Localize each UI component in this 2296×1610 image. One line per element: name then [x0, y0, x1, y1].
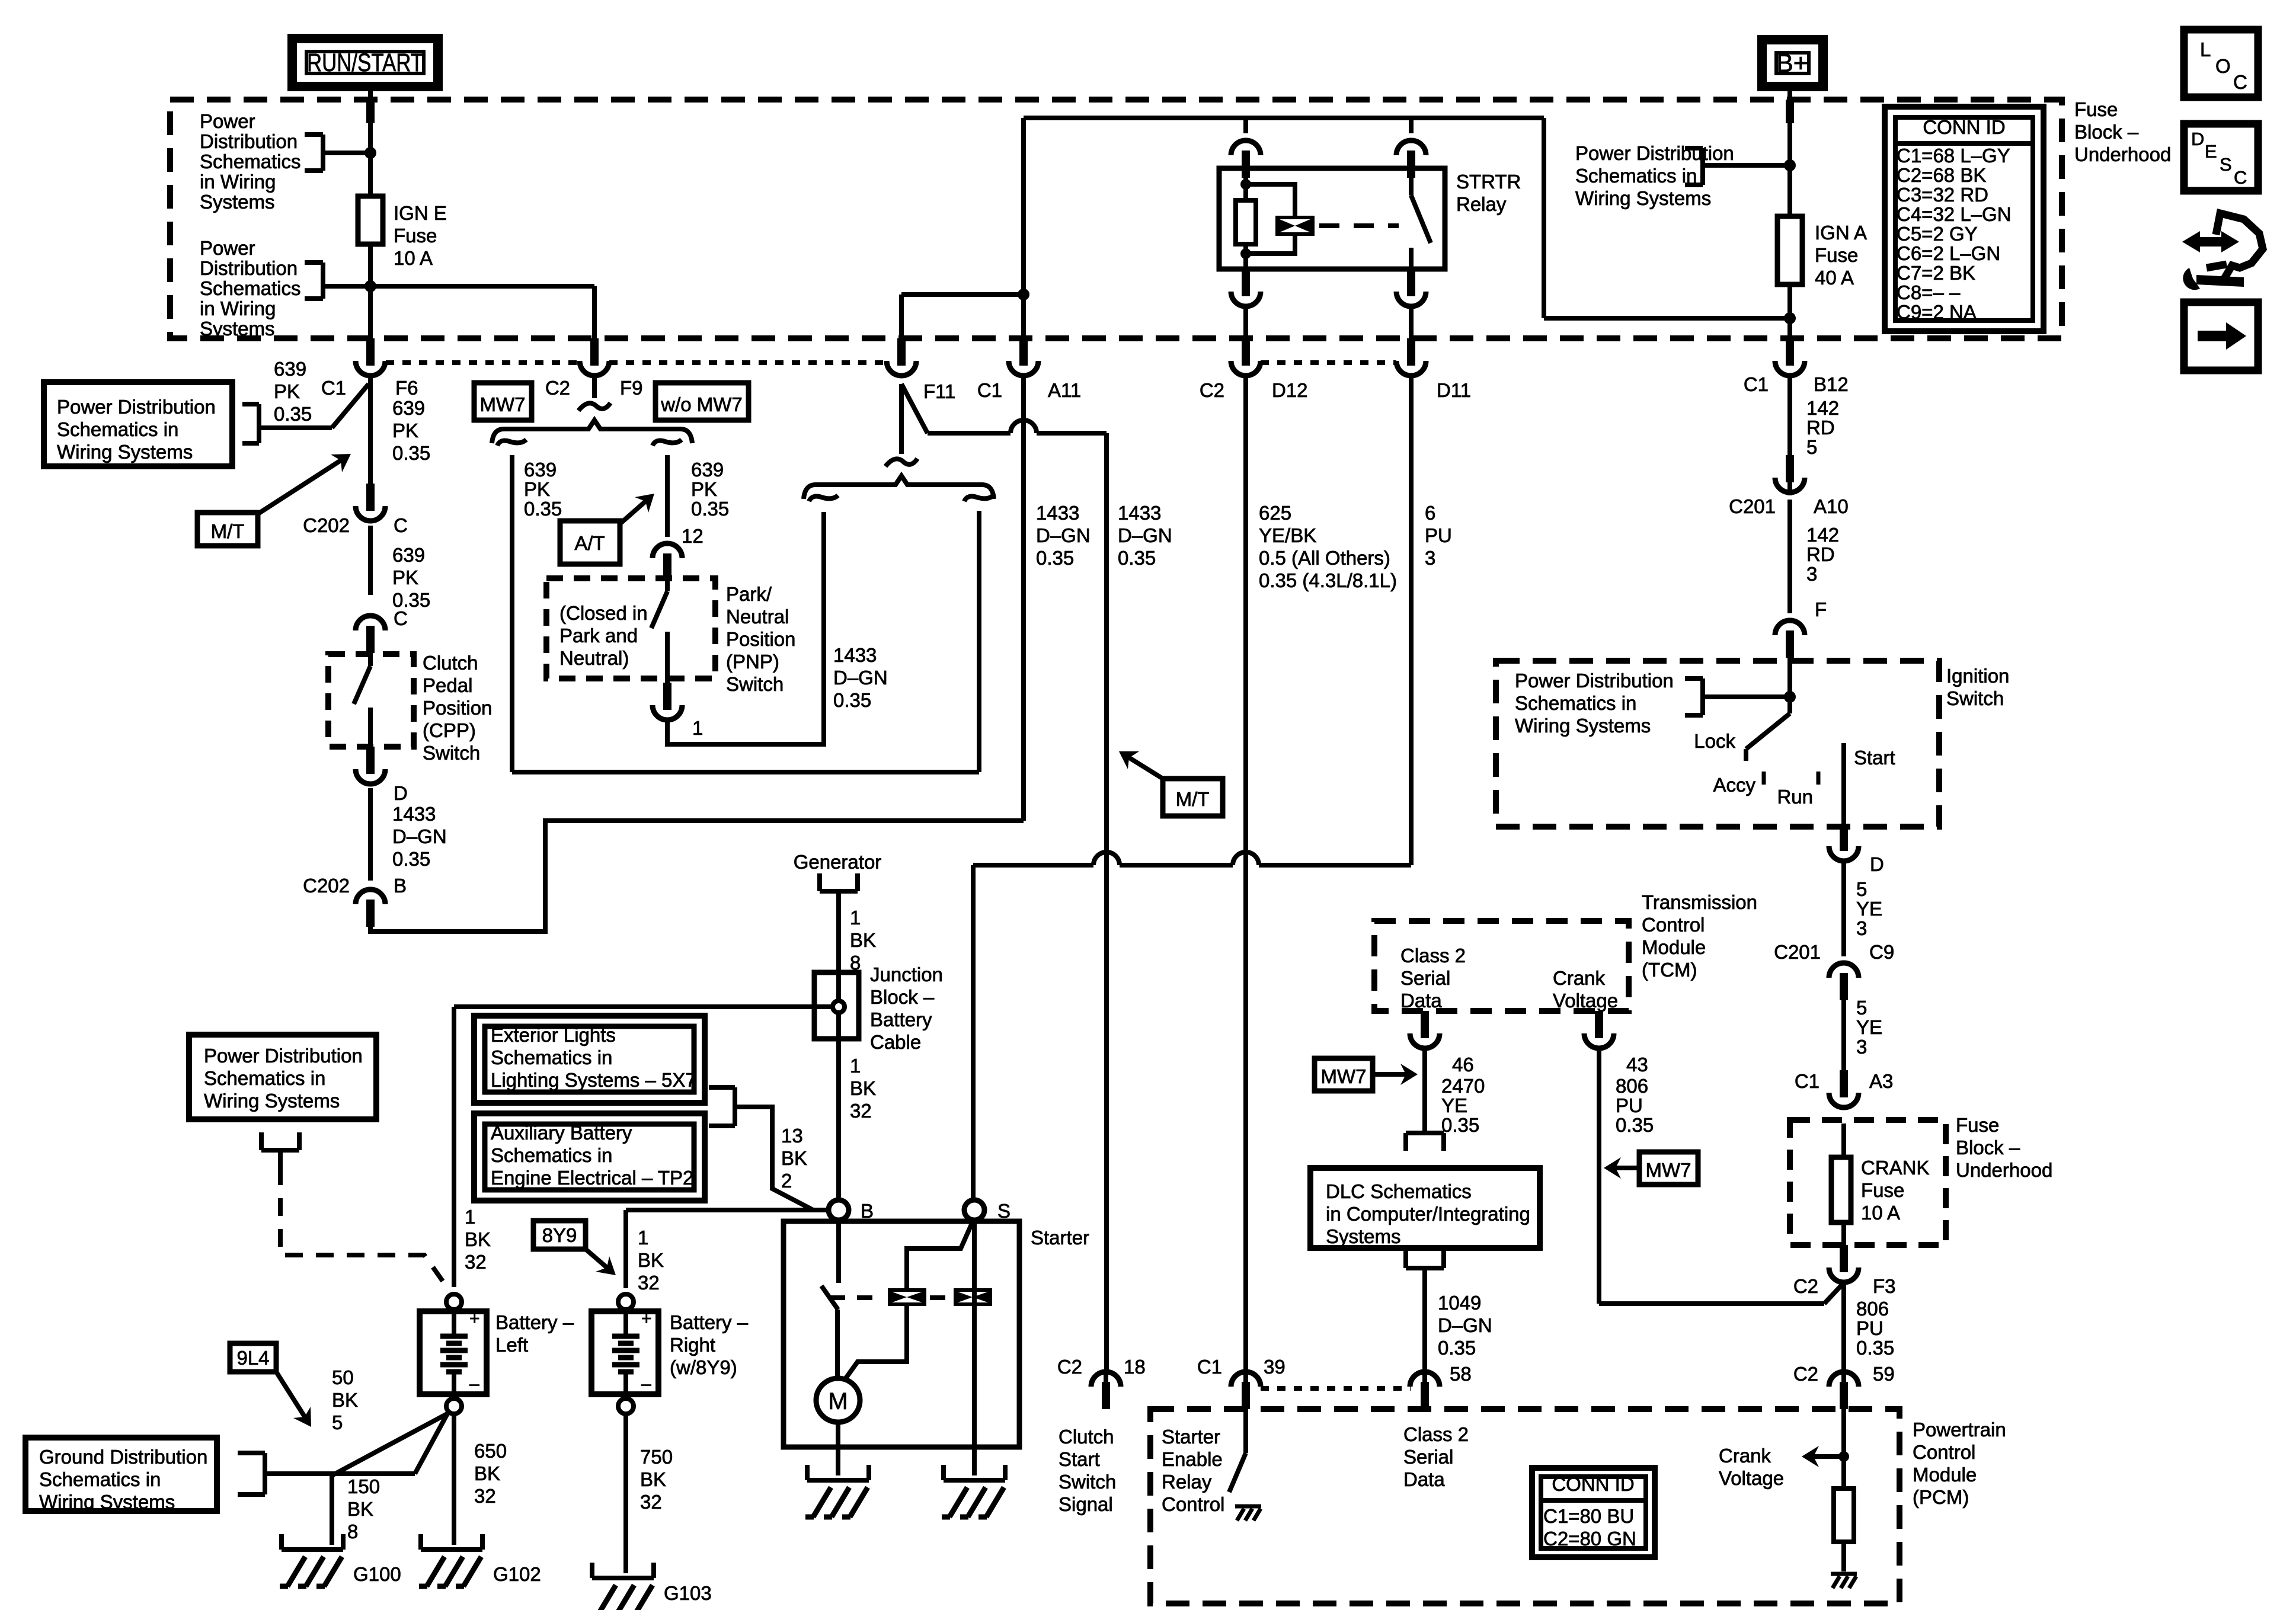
wire D12 into PCM: [1243, 1371, 1248, 1385]
wire starter S to ground: [972, 1447, 977, 1475]
node junction dot B+ upper: [1784, 159, 1796, 171]
svg-text:13: 13: [781, 1125, 803, 1147]
svg-text:(Closed in: (Closed in: [559, 602, 648, 624]
wire relay out to S: [971, 865, 976, 1199]
svg-text:–: –: [469, 1374, 479, 1394]
arrow crank voltage: [1808, 1454, 1844, 1459]
ground G100: [279, 1534, 284, 1550]
svg-text:C: C: [2233, 71, 2247, 93]
ground starter solenoid: [941, 1465, 946, 1480]
svg-text:0.5 (All Others): 0.5 (All Others): [1259, 547, 1390, 569]
svg-text:1049: 1049: [1438, 1292, 1481, 1314]
terminal S starter: [964, 1200, 984, 1220]
svg-text:40 A: 40 A: [1815, 267, 1854, 289]
svg-text:C1: C1: [1197, 1356, 1222, 1378]
svg-text:10 A: 10 A: [394, 247, 433, 269]
svg-text:G100: G100: [353, 1563, 401, 1585]
svg-text:Park and: Park and: [559, 625, 638, 646]
svg-text:Switch: Switch: [423, 742, 480, 764]
wire coil1 top jog: [907, 1222, 973, 1288]
connector C2/59: [1840, 1382, 1848, 1409]
node B+ fuse block entry stub: [1786, 100, 1794, 123]
svg-text:625: 625: [1259, 502, 1291, 524]
svg-text:C9=2 NA: C9=2 NA: [1897, 301, 1977, 323]
splice wave at F9: [578, 403, 610, 411]
wire relay actuation dashed: [1319, 223, 1399, 228]
svg-text:Systems: Systems: [1326, 1225, 1401, 1247]
svg-text:C9: C9: [1869, 941, 1894, 963]
svg-text:Crank: Crank: [1553, 967, 1606, 989]
arrow M/T right to wire: [1124, 754, 1163, 779]
svg-text:1: 1: [638, 1227, 648, 1249]
wire generator down: [836, 891, 841, 1199]
svg-text:Start: Start: [1854, 747, 1895, 769]
wire ground ref run: [265, 1471, 415, 1476]
wire S internal: [972, 1220, 977, 1447]
wire relay switch blade: [1411, 196, 1431, 243]
svg-text:BK: BK: [850, 1077, 876, 1099]
svg-text:DLC Schematics: DLC Schematics: [1326, 1180, 1472, 1202]
wire relay switch out: [1409, 306, 1414, 338]
bracket DLC bottom: [1406, 1266, 1444, 1270]
svg-text:PK: PK: [274, 380, 300, 402]
svg-text:3: 3: [1856, 1036, 1867, 1058]
svg-text:C2: C2: [545, 377, 570, 399]
svg-text:Schematics in: Schematics in: [204, 1067, 325, 1089]
connector C2/F3: [1840, 1245, 1848, 1272]
label MW7 tag box 4: [1639, 1152, 1698, 1185]
svg-text:Neutral): Neutral): [559, 647, 629, 669]
svg-text:C8=– –: C8=– –: [1897, 281, 1961, 303]
fuse IGN E: [358, 196, 383, 244]
svg-text:Schematics in: Schematics in: [39, 1468, 161, 1490]
svg-text:PK: PK: [691, 478, 717, 500]
ground PCM crank: [1831, 1572, 1857, 1576]
icon LOC box: [2184, 30, 2258, 97]
wire bracket left diagonal to C1/F6: [332, 384, 369, 428]
svg-text:Systems: Systems: [200, 191, 275, 213]
wire bracket right to B+ bus: [1703, 163, 1790, 168]
wire D12 column: [1243, 376, 1248, 1371]
node junction dot B+ bus lower: [1784, 312, 1796, 324]
svg-text:PU: PU: [1616, 1094, 1643, 1116]
hook F11 right branch: [964, 495, 993, 501]
wire relay switch stub top: [1409, 168, 1414, 196]
bracket ground distribution: [238, 1451, 265, 1455]
node relay coil dot bottom: [1240, 248, 1251, 259]
ground starter motor: [805, 1465, 810, 1480]
svg-text:Block –: Block –: [870, 986, 935, 1008]
relay STRTR box: [1219, 168, 1445, 269]
svg-text:Generator: Generator: [794, 851, 882, 873]
connector F11: [897, 338, 906, 366]
svg-text:Run: Run: [1777, 786, 1813, 808]
connector CPP input C: [366, 626, 375, 653]
svg-text:D11: D11: [1437, 379, 1471, 401]
wire relay coil pin riser: [1243, 118, 1248, 133]
svg-text:in Computer/Integrating: in Computer/Integrating: [1326, 1203, 1530, 1225]
wire A10 down: [1787, 500, 1792, 613]
svg-text:BK: BK: [781, 1147, 807, 1169]
svg-text:Powertrain: Powertrain: [1913, 1419, 2006, 1441]
wire run tick: [1817, 772, 1821, 785]
wire relay switch stub bottom: [1409, 248, 1414, 269]
terminal B starter: [829, 1200, 849, 1220]
svg-text:806: 806: [1856, 1298, 1889, 1320]
fork brace F9: [492, 420, 692, 443]
svg-text:D–GN: D–GN: [1438, 1314, 1492, 1336]
svg-text:Clutch: Clutch: [423, 652, 478, 674]
wire relay switch feed to B+ bus: [1544, 316, 1790, 321]
svg-text:Wiring Systems: Wiring Systems: [39, 1491, 175, 1513]
svg-text:D: D: [1870, 853, 1884, 875]
svg-text:3: 3: [1806, 563, 1817, 585]
bracket power distribution ign: [1685, 676, 1703, 681]
svg-text:39: 39: [1264, 1356, 1285, 1378]
ground relay control: [1235, 1505, 1261, 1509]
bracket generator: [820, 889, 858, 894]
svg-text:Signal: Signal: [1059, 1493, 1113, 1515]
fuse CRANK: [1831, 1157, 1851, 1222]
svg-text:Control: Control: [1913, 1441, 1975, 1463]
svg-text:Ignition: Ignition: [1946, 665, 2009, 687]
svg-text:Park/: Park/: [726, 583, 772, 605]
node ignition dot: [1784, 691, 1796, 703]
label C1 at B12 wire: [1787, 376, 1792, 495]
svg-text:5: 5: [1856, 878, 1867, 900]
connector C202/B: [366, 900, 375, 927]
wire DLC down: [1422, 1268, 1427, 1368]
svg-text:PK: PK: [392, 566, 418, 588]
label MW7 tag box 3: [1315, 1058, 1373, 1091]
wire dotted connector row 1: [386, 360, 580, 365]
svg-text:F3: F3: [1873, 1275, 1896, 1297]
wire relay switch pin riser: [1409, 118, 1414, 133]
svg-text:Wiring Systems: Wiring Systems: [1575, 187, 1711, 209]
svg-text:D–GN: D–GN: [392, 825, 447, 847]
wire dotted connector row 3: [1261, 360, 1396, 365]
svg-text:CONN ID: CONN ID: [1552, 1473, 1634, 1495]
node crank voltage dot: [1838, 1451, 1849, 1462]
wire TCM crank down: [1597, 1048, 1601, 1304]
svg-text:2: 2: [781, 1170, 792, 1192]
svg-text:0.35: 0.35: [392, 442, 430, 464]
svg-text:D: D: [2191, 129, 2204, 149]
svg-text:Wiring Systems: Wiring Systems: [204, 1090, 340, 1112]
connector CPP output D: [366, 747, 375, 774]
starter box: [784, 1221, 1019, 1447]
svg-text:S: S: [2220, 154, 2232, 175]
svg-text:C: C: [394, 514, 408, 536]
wire F11 below connector diag: [901, 384, 928, 433]
wire relay coil jog top: [1246, 184, 1295, 216]
label w/o MW7 tag box: [655, 383, 749, 420]
label M/T left box: [197, 513, 258, 546]
svg-text:Schematics in: Schematics in: [1515, 692, 1636, 714]
svg-text:PU: PU: [1425, 524, 1452, 546]
wire crank voltage inside: [1841, 1409, 1846, 1489]
wire relay control blade: [1229, 1453, 1246, 1492]
svg-text:E: E: [2205, 141, 2217, 162]
svg-text:Wiring Systems: Wiring Systems: [57, 441, 193, 463]
wire A11 riser vertical: [1021, 118, 1026, 338]
ground G103: [590, 1563, 594, 1578]
wire crank fuse out: [1841, 1222, 1846, 1245]
svg-text:0.35: 0.35: [833, 689, 871, 711]
svg-text:A3: A3: [1869, 1070, 1893, 1092]
svg-text:C2: C2: [1793, 1363, 1818, 1385]
wire relay coil jog bottom: [1246, 236, 1295, 254]
svg-text:in Wiring: in Wiring: [200, 171, 276, 193]
svg-text:10 A: 10 A: [1861, 1202, 1900, 1224]
svg-text:Fuse: Fuse: [1815, 244, 1858, 266]
box exterior lights: [474, 1016, 705, 1103]
wire CPP D down: [368, 788, 373, 881]
svg-text:C2=80 GN: C2=80 GN: [1543, 1528, 1636, 1550]
box power distribution schematics mid-left: [189, 1035, 376, 1119]
svg-text:M/T: M/T: [211, 520, 245, 542]
wire starter motor feed: [835, 1310, 840, 1379]
wire clutch signal vertical: [1104, 433, 1109, 1371]
line CONN ID rule 2: [1541, 1498, 1646, 1503]
svg-text:Pedal: Pedal: [423, 674, 472, 696]
bracket power distribution 2: [305, 260, 323, 265]
arrow 9L4 to wire: [276, 1372, 308, 1422]
svg-text:18: 18: [1124, 1356, 1146, 1378]
wire F11 right branch: [977, 511, 981, 772]
connector C2/F9: [590, 338, 599, 366]
svg-text:IGN A: IGN A: [1815, 222, 1867, 244]
svg-text:Power Distribution: Power Distribution: [204, 1045, 363, 1067]
wire relay coil internal pin: [1243, 168, 1248, 269]
svg-text:D–GN: D–GN: [833, 667, 888, 689]
svg-text:Module: Module: [1913, 1464, 1977, 1486]
hook MW7 branch: [497, 440, 526, 446]
svg-text:(CPP): (CPP): [423, 719, 476, 741]
battery left: [446, 1294, 462, 1310]
svg-text:Neutral: Neutral: [726, 606, 789, 628]
svg-text:150: 150: [347, 1475, 380, 1497]
ground G102: [418, 1534, 423, 1550]
wire CPP lower contact: [368, 708, 373, 767]
svg-text:Ground Distribution: Ground Distribution: [39, 1446, 207, 1468]
label A/T tag box: [560, 521, 620, 564]
connector C201/C9: [1840, 973, 1848, 1000]
svg-text:S: S: [997, 1200, 1011, 1222]
svg-text:C202: C202: [303, 514, 350, 536]
wire relay out horizontal a: [973, 863, 1093, 868]
battery right: [618, 1294, 634, 1310]
splice wave at F11: [885, 459, 917, 466]
icon wrench: [2182, 213, 2263, 290]
svg-text:C1=68 L–GY: C1=68 L–GY: [1897, 145, 2010, 167]
fuse block crank dashed box: [1790, 1120, 1946, 1245]
fuse IGN A: [1777, 216, 1802, 284]
svg-text:Systems: Systems: [200, 318, 275, 340]
wire battery B feed: [626, 1208, 829, 1212]
svg-text:Power Distribution: Power Distribution: [57, 396, 216, 418]
svg-text:1: 1: [850, 907, 861, 929]
svg-text:2470: 2470: [1441, 1075, 1485, 1097]
svg-text:C202: C202: [303, 875, 350, 897]
connector PNP pin 1: [663, 683, 671, 710]
svg-text:C3=32 RD: C3=32 RD: [1897, 184, 1988, 206]
label MW7 tag box: [474, 383, 532, 420]
svg-text:C1: C1: [321, 377, 346, 399]
arrow MW7 to crank wire: [1610, 1166, 1639, 1170]
svg-text:Fuse: Fuse: [2074, 98, 2118, 120]
svg-text:58: 58: [1450, 1363, 1472, 1385]
wire relay switch feed corner down: [1542, 118, 1546, 318]
label 9L4 tag box: [230, 1343, 276, 1372]
svg-text:8Y9: 8Y9: [542, 1224, 577, 1246]
wire starter solenoid blade: [821, 1286, 838, 1310]
icon arrow glyph: [2198, 331, 2226, 341]
svg-text:F6: F6: [395, 377, 418, 399]
bracket power distribution mid-left: [261, 1148, 299, 1153]
svg-text:Lighting Systems – 5X7: Lighting Systems – 5X7: [491, 1069, 696, 1091]
svg-text:1: 1: [850, 1055, 861, 1077]
svg-text:Schematics in: Schematics in: [57, 418, 178, 440]
svg-text:750: 750: [640, 1446, 673, 1468]
wire PNP stub: [665, 580, 670, 591]
svg-text:5: 5: [1856, 997, 1867, 1019]
svg-text:Battery –: Battery –: [670, 1311, 749, 1333]
terminal B+: [1762, 40, 1823, 87]
node junction dot A11 riser: [1018, 289, 1029, 300]
svg-text:Switch: Switch: [726, 673, 784, 695]
fuse block underhood dashed box: [170, 100, 2062, 338]
svg-text:Crank: Crank: [1719, 1445, 1771, 1467]
svg-text:0.35: 0.35: [1438, 1337, 1476, 1359]
svg-text:3: 3: [1425, 547, 1435, 569]
svg-text:0.35: 0.35: [1616, 1114, 1654, 1136]
wire crank fuse in: [1841, 1124, 1846, 1159]
connector C2/18: [1102, 1382, 1110, 1409]
svg-text:650: 650: [474, 1440, 507, 1462]
svg-text:YE/BK: YE/BK: [1259, 524, 1316, 546]
wire battery left riser: [452, 1007, 456, 1287]
wire w/o MW7 branch down: [665, 455, 670, 537]
wire CPP stub: [368, 653, 373, 666]
wire F11 riser vertical: [899, 295, 904, 338]
svg-text:Lock: Lock: [1694, 730, 1735, 752]
svg-text:59: 59: [1873, 1363, 1895, 1385]
svg-text:M: M: [828, 1388, 848, 1414]
label 8Y9 tag box: [533, 1221, 586, 1249]
svg-text:MW7: MW7: [1646, 1159, 1691, 1181]
switch PNP dashed box: [546, 578, 715, 678]
svg-text:BK: BK: [638, 1249, 664, 1271]
svg-text:CRANK: CRANK: [1861, 1157, 1930, 1179]
wire IGN A fuse down: [1787, 284, 1792, 338]
svg-text:in Wiring: in Wiring: [200, 297, 276, 319]
wire crank voltage diag: [1824, 1285, 1842, 1304]
svg-text:806: 806: [1616, 1075, 1648, 1097]
svg-text:32: 32: [850, 1100, 872, 1122]
svg-text:5: 5: [332, 1411, 343, 1433]
wire A11 column: [1021, 376, 1026, 821]
svg-text:Left: Left: [495, 1334, 528, 1356]
connector ignition F: [1786, 630, 1794, 658]
wire 750 BK 32 down: [623, 1413, 628, 1573]
line CONN ID header rule: [1895, 141, 2033, 146]
svg-text:0.35: 0.35: [392, 848, 430, 870]
wire coil1 bottom jog: [844, 1306, 907, 1381]
wire 59 into PCM: [1841, 1363, 1846, 1385]
svg-text:Schematics: Schematics: [200, 277, 301, 299]
svg-text:Module: Module: [1642, 936, 1706, 958]
svg-text:Control: Control: [1162, 1493, 1224, 1515]
svg-text:PU: PU: [1856, 1317, 1884, 1339]
svg-text:Exterior Lights: Exterior Lights: [491, 1024, 616, 1046]
svg-text:M/T: M/T: [1176, 788, 1210, 810]
connector C1/39: [1242, 1382, 1250, 1409]
svg-text:D: D: [394, 782, 408, 804]
wire F11 horizontal to clutch signal: [928, 431, 1011, 436]
svg-text:Schematics in: Schematics in: [1575, 165, 1697, 187]
svg-text:Schematics: Schematics: [200, 151, 301, 172]
wire ignition input: [1787, 658, 1792, 713]
wire accy tick: [1762, 772, 1766, 785]
svg-text:D–GN: D–GN: [1118, 524, 1172, 546]
connector D11: [1407, 338, 1415, 366]
svg-text:Data: Data: [1403, 1468, 1445, 1490]
connector TCM class2: [1421, 1011, 1429, 1038]
wire relay coil out: [1243, 306, 1248, 338]
wire dashed to battery left: [280, 1167, 443, 1281]
svg-text:Battery –: Battery –: [495, 1311, 574, 1333]
svg-text:639: 639: [274, 358, 306, 380]
wire C202-C down: [368, 526, 373, 595]
svg-text:Serial: Serial: [1400, 967, 1450, 989]
svg-text:1: 1: [465, 1206, 475, 1228]
svg-text:0.35: 0.35: [274, 403, 312, 425]
connector C1/B12: [1786, 338, 1794, 366]
connector C1/A3: [1840, 1070, 1848, 1097]
wire relay feed horizontal: [1024, 116, 1544, 120]
svg-text:PK: PK: [392, 420, 418, 441]
terminal RUN/START: [292, 39, 438, 87]
connector TCM crank: [1595, 1011, 1603, 1038]
wire F11 riser horizontal: [901, 292, 1024, 297]
svg-text:B+: B+: [1776, 49, 1808, 78]
box power distribution schematics left: [44, 382, 232, 466]
svg-text:639: 639: [392, 397, 425, 419]
svg-text:Position: Position: [726, 628, 795, 650]
node RUN/START fuse block entry stub: [366, 100, 375, 123]
wire MW7 to F11 link: [512, 770, 979, 774]
svg-text:Distribution: Distribution: [200, 257, 298, 279]
wire PCM resistor to ground: [1841, 1542, 1846, 1571]
svg-text:8: 8: [347, 1521, 358, 1542]
svg-text:Cable: Cable: [870, 1031, 921, 1053]
wire relay control inside: [1243, 1409, 1248, 1453]
svg-text:Switch: Switch: [1946, 687, 2004, 709]
hook w/o MW7 branch: [653, 440, 682, 446]
svg-text:CONN ID: CONN ID: [1923, 116, 2005, 138]
wire D11 column: [1409, 376, 1414, 865]
svg-text:C1: C1: [977, 379, 1002, 401]
switch ignition dashed box: [1496, 661, 1939, 827]
svg-text:Data: Data: [1400, 990, 1442, 1012]
module PCM dashed box: [1150, 1409, 1900, 1603]
svg-text:C6=2 L–GN: C6=2 L–GN: [1897, 242, 2000, 264]
wire F11 vertical to splice: [899, 384, 904, 454]
svg-text:Underhood: Underhood: [1956, 1159, 2052, 1181]
wire starter dash link 2: [930, 1295, 950, 1300]
table CONN ID underhood: [1885, 107, 2044, 331]
